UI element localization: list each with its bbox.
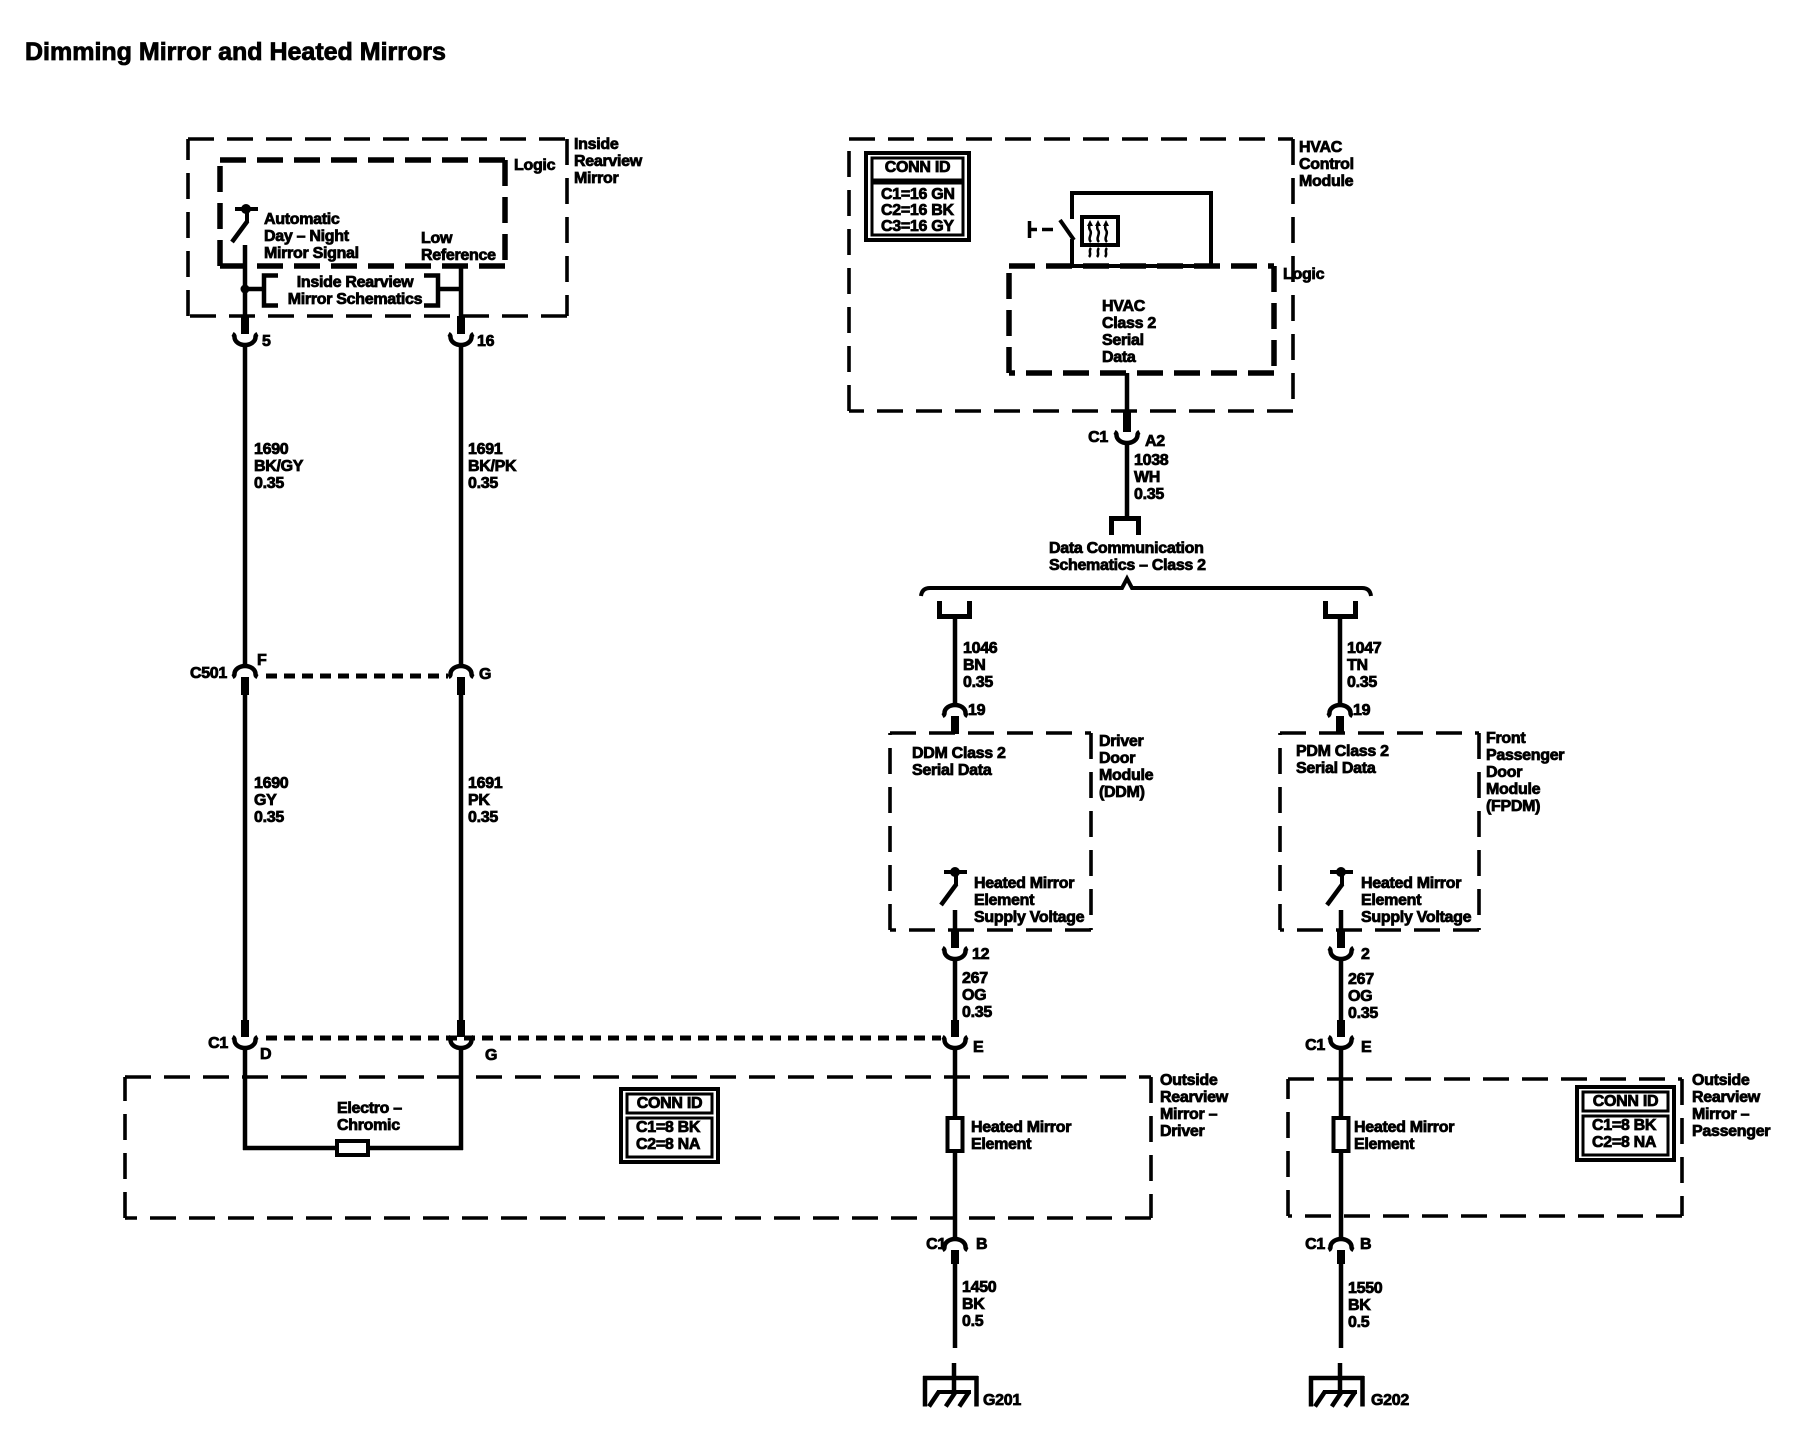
svg-text:C1=8 BK: C1=8 BK: [636, 1119, 701, 1136]
svg-text:TN: TN: [1347, 657, 1368, 674]
svg-text:Chromic: Chromic: [337, 1117, 400, 1134]
svg-text:Mirror Signal: Mirror Signal: [264, 245, 359, 262]
svg-text:Serial Data: Serial Data: [912, 762, 992, 779]
automatic day-night mirror signal driver switch: [232, 204, 258, 242]
svg-text:C2=8 NA: C2=8 NA: [636, 1136, 701, 1153]
svg-text:267: 267: [1348, 971, 1374, 988]
wire from HVAC logic to pin A2: [1125, 373, 1130, 413]
svg-text:Automatic: Automatic: [264, 211, 340, 228]
svg-text:C1=8 BK: C1=8 BK: [1592, 1117, 1657, 1134]
svg-text:Mirror –: Mirror –: [1692, 1106, 1750, 1123]
heater relay switch blade: [1060, 220, 1074, 240]
inside rearview mirror module label: [574, 136, 643, 187]
ground G201: [923, 1363, 978, 1407]
svg-text:Element: Element: [1361, 892, 1422, 909]
PDM pin 19 stub: [1336, 716, 1344, 734]
svg-text:Schematics – Class 2: Schematics – Class 2: [1049, 557, 1206, 574]
branch bracket to PDM: [1326, 601, 1356, 617]
svg-text:Rearview: Rearview: [574, 153, 643, 170]
connector C1 pin G: [449, 1037, 474, 1048]
automatic day-night mirror signal label: [264, 211, 359, 262]
svg-text:Low: Low: [421, 230, 453, 247]
tap to schematics reference (left): [245, 287, 263, 292]
pin F label: [257, 652, 267, 669]
svg-text:267: 267: [962, 970, 988, 987]
front passenger door module label: [1486, 730, 1564, 815]
G201 label: [983, 1392, 1021, 1409]
pin B label (driver): [976, 1236, 987, 1253]
svg-text:Driver: Driver: [1099, 733, 1144, 750]
svg-text:Element: Element: [974, 892, 1035, 909]
svg-text:0.5: 0.5: [962, 1313, 984, 1330]
svg-text:PDM Class 2: PDM Class 2: [1296, 743, 1389, 760]
svg-text:5: 5: [262, 333, 271, 350]
driver heated mirror element label: [971, 1119, 1071, 1153]
heater relay contact terminal: [1030, 221, 1038, 238]
connector C501 pin G: [449, 666, 474, 677]
driver mirror pin B connector: [943, 1239, 968, 1250]
svg-text:Passenger: Passenger: [1692, 1123, 1770, 1140]
svg-text:19: 19: [968, 702, 986, 719]
ground G202: [1309, 1363, 1364, 1407]
svg-text:0.35: 0.35: [468, 809, 498, 826]
svg-text:Passenger: Passenger: [1486, 747, 1564, 764]
driver heated mirror element lead in: [953, 1048, 958, 1120]
svg-text:Reference: Reference: [421, 247, 496, 264]
svg-text:0.35: 0.35: [963, 674, 993, 691]
svg-text:C2=16 BK: C2=16 BK: [881, 202, 954, 219]
wire 1691 PK lower segment: [459, 695, 464, 1021]
pin 16 stub: [457, 316, 465, 334]
passenger heated mirror element lead in: [1339, 1048, 1344, 1120]
wire 267 OG label (passenger): [1348, 971, 1378, 1022]
wire 1038 WH label: [1134, 452, 1169, 503]
PDM class 2 serial data label: [1296, 743, 1389, 777]
pin 2 connector: [1329, 948, 1354, 959]
pin 16 label: [477, 333, 495, 350]
wire switch to pin 2: [1339, 910, 1344, 932]
svg-text:Door: Door: [1486, 764, 1522, 781]
pin E label (passenger): [1361, 1039, 1372, 1056]
wire 1690 BK/GY upper segment: [243, 345, 248, 667]
svg-text:Mirror Schematics: Mirror Schematics: [288, 291, 423, 308]
driver heated mirror element lead out: [953, 1151, 958, 1238]
svg-text:BK/GY: BK/GY: [254, 458, 304, 475]
DDM pin 19 connector: [943, 705, 968, 716]
svg-text:1691: 1691: [468, 775, 503, 792]
svg-text:Serial Data: Serial Data: [1296, 760, 1376, 777]
svg-text:Heated Mirror: Heated Mirror: [1361, 875, 1461, 892]
driver heated mirror element: [948, 1118, 963, 1151]
PDM pin 19 connector: [1328, 705, 1353, 716]
inside rearview mirror module box: [188, 139, 567, 316]
svg-text:OG: OG: [962, 987, 986, 1004]
heated mirror element supply voltage label (PDM): [1361, 875, 1472, 926]
svg-text:Data Communication: Data Communication: [1049, 540, 1204, 557]
electro-chromic element: [337, 1141, 368, 1155]
C1 label (passenger mirror): [1305, 1037, 1325, 1054]
svg-text:HVAC: HVAC: [1299, 139, 1343, 156]
wire from day-night switch to pin 5: [243, 245, 248, 317]
svg-text:Inside Rearview: Inside Rearview: [297, 274, 414, 291]
svg-text:CONN ID: CONN ID: [885, 159, 950, 176]
driver door module box: [890, 733, 1091, 930]
pin E label (driver): [973, 1039, 984, 1056]
heated element icon: [1082, 217, 1118, 257]
inside rearview mirror schematics label: [288, 274, 423, 308]
svg-text:Module: Module: [1486, 781, 1541, 798]
svg-text:Serial: Serial: [1102, 332, 1144, 349]
title: [25, 38, 446, 66]
svg-text:1690: 1690: [254, 775, 289, 792]
passenger heated mirror element: [1334, 1118, 1349, 1151]
C1 label (passenger mirror ground pin): [1305, 1236, 1325, 1253]
wire 1038 WH: [1125, 443, 1130, 518]
svg-text:Data: Data: [1102, 349, 1136, 366]
wire 1691 BK/PK upper segment: [459, 345, 464, 667]
svg-text:0.35: 0.35: [254, 475, 284, 492]
logic label (HVAC): [1283, 266, 1325, 283]
outside rearview mirror driver label: [1160, 1072, 1229, 1140]
low reference label: [421, 230, 496, 264]
svg-text:BK: BK: [1348, 1297, 1371, 1314]
A2 pin label: [1145, 433, 1165, 450]
inside rearview mirror schematics reference bracket right: [424, 276, 438, 306]
svg-text:C501: C501: [190, 665, 227, 682]
svg-text:GY: GY: [254, 792, 277, 809]
wire 1691 PK label: [468, 775, 503, 826]
svg-text:C1: C1: [1088, 429, 1108, 446]
data communication schematics label: [1049, 540, 1206, 574]
svg-text:0.35: 0.35: [468, 475, 498, 492]
svg-text:1038: 1038: [1134, 452, 1169, 469]
driver mirror pin B stub: [951, 1250, 959, 1264]
svg-text:Rearview: Rearview: [1692, 1089, 1761, 1106]
svg-text:2: 2: [1361, 946, 1370, 963]
C1 pin D stub: [241, 1020, 249, 1037]
electro-chromic label: [337, 1100, 402, 1134]
C1 label (HVAC): [1088, 429, 1108, 446]
wire 267 OG label (driver): [962, 970, 992, 1021]
wire 1690 GY lower segment: [243, 695, 248, 1021]
logic label (inside rearview mirror): [514, 157, 556, 174]
pin G label (C1): [485, 1047, 497, 1064]
svg-text:CONN ID: CONN ID: [637, 1095, 702, 1112]
svg-text:C1: C1: [1305, 1037, 1325, 1054]
driver door module label: [1099, 733, 1154, 801]
heated mirror element supply voltage switch (DDM): [941, 867, 967, 905]
heated mirror element supply voltage label (DDM): [974, 875, 1085, 926]
pin 12 stub: [951, 931, 959, 948]
data communication brace: [921, 579, 1371, 597]
svg-text:1046: 1046: [963, 640, 998, 657]
wire 1690 GY label: [254, 775, 289, 826]
connector C501 label: [190, 665, 227, 682]
driver mirror CONN ID table: [621, 1089, 718, 1162]
passenger mirror pin B connector: [1329, 1239, 1354, 1250]
tap to schematics reference (right): [438, 287, 461, 292]
passenger mirror pin B stub: [1337, 1250, 1345, 1264]
svg-text:CONN ID: CONN ID: [1593, 1093, 1658, 1110]
DDM class 2 serial data label: [912, 745, 1006, 779]
svg-text:Mirror –: Mirror –: [1160, 1106, 1218, 1123]
pin D label: [260, 1046, 271, 1063]
svg-text:G: G: [485, 1047, 497, 1064]
wire switch to pin 12: [953, 910, 958, 932]
wire 1047 TN label: [1347, 640, 1382, 691]
connector C1 pin A2: [1115, 432, 1140, 443]
pin 16 connector: [449, 334, 474, 345]
svg-text:Module: Module: [1299, 173, 1354, 190]
driver mirror pin E stub: [951, 1020, 959, 1037]
svg-text:Mirror: Mirror: [574, 170, 619, 187]
outside rearview mirror passenger box: [1288, 1079, 1682, 1216]
svg-text:C1: C1: [208, 1035, 228, 1052]
pin 5 stub: [241, 316, 249, 334]
svg-text:(DDM): (DDM): [1099, 784, 1145, 801]
heater relay outline: [1070, 193, 1211, 266]
svg-text:B: B: [976, 1236, 987, 1253]
passenger mirror pin E connector: [1329, 1037, 1354, 1048]
HVAC class 2 serial data label: [1102, 298, 1156, 366]
pin B label (passenger): [1360, 1236, 1371, 1253]
wire 1047 TN: [1338, 616, 1343, 705]
wire from low reference to pin 16: [459, 266, 464, 317]
passenger heated mirror element lead out: [1339, 1151, 1344, 1238]
driver mirror pin E connector: [943, 1037, 968, 1048]
svg-text:Supply Voltage: Supply Voltage: [974, 909, 1085, 926]
svg-text:0.35: 0.35: [1347, 674, 1377, 691]
svg-text:DDM Class 2: DDM Class 2: [912, 745, 1006, 762]
svg-text:Control: Control: [1299, 156, 1354, 173]
HVAC CONN ID table: [866, 153, 969, 240]
pin 19 label (PDM): [1353, 702, 1371, 719]
svg-text:0.35: 0.35: [254, 809, 284, 826]
svg-text:Driver: Driver: [1160, 1123, 1205, 1140]
svg-text:0.35: 0.35: [1348, 1005, 1378, 1022]
svg-text:C1: C1: [1305, 1236, 1325, 1253]
svg-text:Outside: Outside: [1692, 1072, 1750, 1089]
passenger mirror pin E stub: [1337, 1020, 1345, 1037]
wire 1691 BK/PK label: [468, 441, 517, 492]
HVAC control module box: [849, 139, 1293, 411]
svg-text:0.5: 0.5: [1348, 1314, 1370, 1331]
HVAC logic box: [1009, 266, 1274, 373]
svg-text:1550: 1550: [1348, 1280, 1383, 1297]
C501 harness dashed link F to G: [266, 674, 448, 679]
svg-text:12: 12: [972, 946, 990, 963]
svg-text:Supply Voltage: Supply Voltage: [1361, 909, 1472, 926]
svg-text:Outside: Outside: [1160, 1072, 1218, 1089]
svg-text:B: B: [1360, 1236, 1371, 1253]
pin 5 connector: [233, 334, 258, 345]
branch bracket to DDM: [940, 601, 970, 617]
svg-text:Door: Door: [1099, 750, 1135, 767]
svg-text:D: D: [260, 1046, 271, 1063]
inside rearview mirror schematics reference bracket left: [264, 276, 278, 306]
svg-text:1450: 1450: [962, 1279, 997, 1296]
pin 12 label: [972, 946, 990, 963]
svg-text:1047: 1047: [1347, 640, 1382, 657]
svg-text:19: 19: [1353, 702, 1371, 719]
electro-chromic right lead: [368, 1048, 463, 1150]
svg-text:HVAC: HVAC: [1102, 298, 1146, 315]
C1 label (driver mirror ground pin): [926, 1236, 946, 1253]
wire 1550 BK: [1339, 1264, 1344, 1348]
svg-text:PK: PK: [468, 792, 490, 809]
svg-text:G201: G201: [983, 1392, 1021, 1409]
svg-text:G: G: [479, 666, 491, 683]
svg-text:Rearview: Rearview: [1160, 1089, 1229, 1106]
svg-text:0.35: 0.35: [962, 1004, 992, 1021]
pin 19 label (DDM): [968, 702, 986, 719]
wire 1450 BK: [953, 1264, 958, 1348]
svg-text:BK: BK: [962, 1296, 985, 1313]
pin G label (C501): [479, 666, 491, 683]
DDM pin 19 stub: [951, 716, 959, 734]
pin 2 stub: [1337, 931, 1345, 948]
svg-text:1690: 1690: [254, 441, 289, 458]
svg-text:C3=16 GY: C3=16 GY: [881, 218, 954, 235]
svg-text:Module: Module: [1099, 767, 1154, 784]
passenger heated mirror element label: [1354, 1119, 1454, 1153]
wire 267 OG (passenger): [1339, 959, 1344, 1021]
connector C501 pin F: [233, 666, 258, 677]
svg-text:Element: Element: [1354, 1136, 1415, 1153]
inside rearview mirror logic box: [220, 160, 505, 266]
svg-text:Day – Night: Day – Night: [264, 228, 350, 245]
outside rearview mirror driver box: [125, 1077, 1151, 1218]
svg-text:G202: G202: [1371, 1392, 1409, 1409]
passenger mirror CONN ID table: [1577, 1087, 1674, 1160]
pin 2 label: [1361, 946, 1370, 963]
heater relay contact dash: [1042, 228, 1053, 232]
svg-text:Dimming Mirror and Heated Mirr: Dimming Mirror and Heated Mirrors: [25, 38, 446, 66]
wire 1046 BN: [953, 616, 958, 705]
heated mirror element supply voltage switch (PDM): [1327, 867, 1353, 905]
svg-text:1691: 1691: [468, 441, 503, 458]
svg-text:WH: WH: [1134, 469, 1160, 486]
C1 A2 stub: [1123, 412, 1131, 432]
svg-text:Inside: Inside: [574, 136, 619, 153]
outside rearview mirror passenger label: [1692, 1072, 1770, 1140]
connector C1 label (mirror): [208, 1035, 228, 1052]
svg-text:OG: OG: [1348, 988, 1372, 1005]
svg-text:Front: Front: [1486, 730, 1526, 747]
HVAC control module label: [1299, 139, 1354, 190]
svg-text:(FPDM): (FPDM): [1486, 798, 1540, 815]
pin 5 label: [262, 333, 271, 350]
svg-text:A2: A2: [1145, 433, 1165, 450]
pin 12 connector: [943, 948, 968, 959]
svg-text:C1=16 GN: C1=16 GN: [881, 186, 955, 203]
svg-text:Heated Mirror: Heated Mirror: [1354, 1119, 1454, 1136]
svg-text:BN: BN: [963, 657, 986, 674]
wire 1690 BK/GY label: [254, 441, 304, 492]
wire 267 OG (driver): [953, 959, 958, 1021]
C1 pin G stub: [457, 1020, 465, 1037]
svg-text:F: F: [257, 652, 267, 669]
C501 pin F stub: [241, 677, 249, 695]
front passenger door module box: [1280, 733, 1479, 930]
junction dot on mirror signal wire: [241, 285, 250, 294]
wire 1550 BK label: [1348, 1280, 1383, 1331]
svg-text:Element: Element: [971, 1136, 1032, 1153]
wire 1450 BK label: [962, 1279, 997, 1330]
svg-text:Electro –: Electro –: [337, 1100, 402, 1117]
svg-text:Heated Mirror: Heated Mirror: [971, 1119, 1071, 1136]
svg-text:Logic: Logic: [1283, 266, 1325, 283]
svg-text:E: E: [973, 1039, 984, 1056]
svg-text:0.35: 0.35: [1134, 486, 1164, 503]
svg-text:Logic: Logic: [514, 157, 556, 174]
connector C1 pin D: [233, 1037, 258, 1048]
C501 pin G stub: [457, 677, 465, 695]
wire 1046 BN label: [963, 640, 998, 691]
svg-text:BK/PK: BK/PK: [468, 458, 517, 475]
dashed link D to G to E: [266, 1036, 941, 1041]
svg-text:C2=8 NA: C2=8 NA: [1592, 1134, 1657, 1151]
off-page reference bracket (to data communication): [1112, 519, 1139, 536]
svg-text:Class 2: Class 2: [1102, 315, 1156, 332]
svg-text:E: E: [1361, 1039, 1372, 1056]
svg-text:Heated Mirror: Heated Mirror: [974, 875, 1074, 892]
G202 label: [1371, 1392, 1409, 1409]
electro-chromic left lead: [243, 1048, 338, 1150]
svg-text:16: 16: [477, 333, 495, 350]
